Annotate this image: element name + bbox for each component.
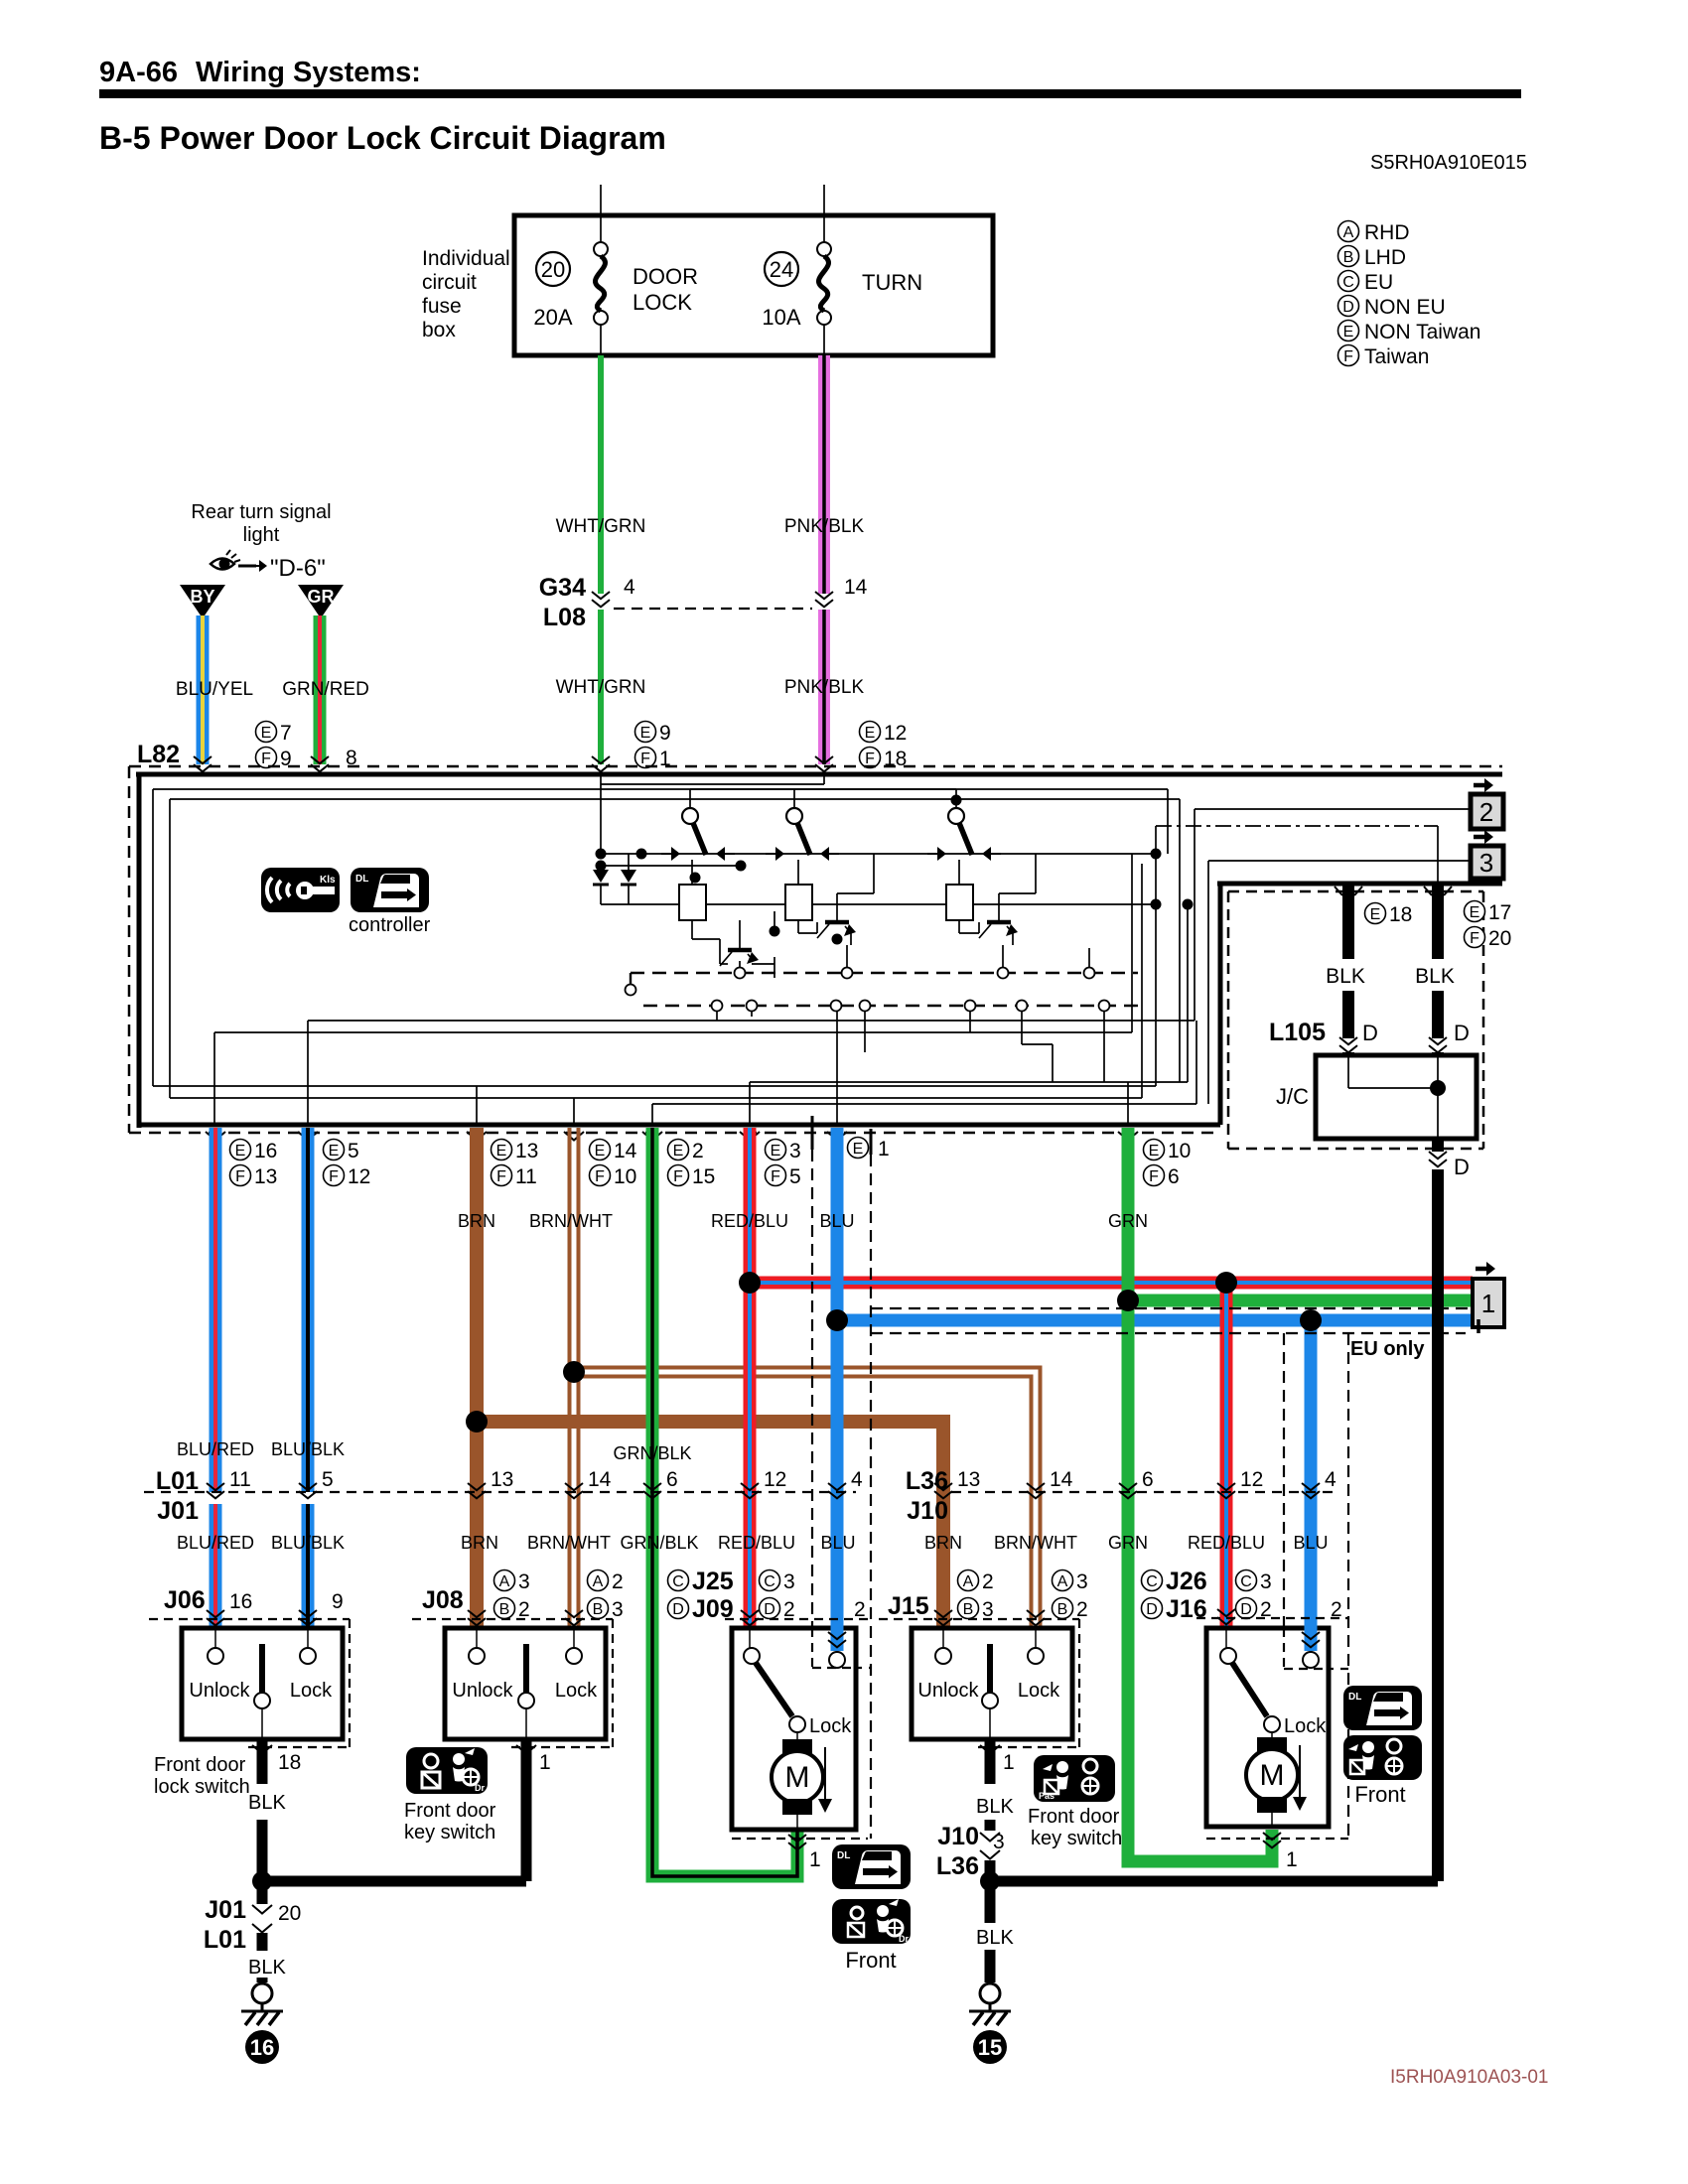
svg-text:DL: DL	[837, 1850, 850, 1861]
svg-text:L36: L36	[906, 1467, 948, 1495]
svg-text:15: 15	[978, 2035, 1002, 2060]
connector L105 chevron right	[1429, 1037, 1447, 1052]
svg-text:NON EU: NON EU	[1364, 296, 1446, 319]
wire BLU/RED from L01 to J06	[210, 1504, 222, 1628]
front door lock switch caption	[154, 1754, 250, 1798]
svg-text:TURN: TURN	[862, 270, 922, 295]
internal diode 2	[621, 854, 636, 904]
controller solid box bottom edge	[139, 1123, 1220, 1128]
controller pin E1	[848, 1138, 890, 1161]
internal relay coil 2	[785, 885, 812, 920]
svg-text:BLK: BLK	[976, 1796, 1014, 1818]
svg-text:RED/BLU: RED/BLU	[1188, 1533, 1265, 1553]
internal dashed bus upper terminals	[735, 968, 1095, 979]
controller pin E14 F10	[590, 1140, 637, 1189]
svg-text:DL: DL	[1348, 1692, 1361, 1703]
svg-text:18: 18	[1389, 903, 1412, 926]
key switch badge J08	[406, 1747, 488, 1794]
svg-text:BRN/WHT: BRN/WHT	[994, 1533, 1077, 1553]
svg-text:BLK: BLK	[1415, 965, 1455, 988]
internal diode 1	[593, 866, 609, 904]
svg-text:M: M	[1260, 1759, 1285, 1792]
svg-text:F: F	[595, 1168, 605, 1185]
svg-text:10: 10	[614, 1165, 636, 1188]
svg-text:GRN/RED: GRN/RED	[282, 679, 369, 700]
svg-text:B-5 Power Door Lock Circuit Di: B-5 Power Door Lock Circuit Diagram	[99, 120, 666, 156]
svg-text:A: A	[499, 1573, 510, 1590]
svg-text:6: 6	[1168, 1165, 1180, 1188]
connector L105 chevron left	[1339, 1037, 1357, 1052]
internal transistor Q3	[979, 908, 1018, 938]
internal junction dots on left bus	[596, 849, 647, 872]
controller pin E5 F12	[324, 1140, 371, 1189]
svg-text:Rear turn signal: Rear turn signal	[191, 501, 331, 523]
junction block J/C box	[1316, 1055, 1477, 1139]
svg-text:1: 1	[1481, 1289, 1495, 1318]
fuse 24 feed stub	[823, 185, 825, 215]
svg-text:key switch: key switch	[1031, 1828, 1122, 1849]
svg-text:light: light	[243, 524, 280, 546]
junction dot RED/BLU right branch	[1215, 1272, 1237, 1294]
svg-text:Individual: Individual	[422, 247, 510, 270]
junction block dashed box	[1228, 891, 1483, 1149]
svg-text:BLU: BLU	[820, 1533, 855, 1553]
controller solid box left edge	[137, 774, 142, 1128]
svg-text:11: 11	[229, 1468, 251, 1491]
wire BLK right lower segment	[1432, 991, 1444, 1038]
svg-text:5: 5	[348, 1140, 359, 1162]
controller right rail	[1217, 882, 1502, 887]
numbered box 3	[1471, 846, 1503, 879]
svg-text:B: B	[499, 1601, 510, 1618]
svg-text:LHD: LHD	[1364, 246, 1406, 269]
wire BLU/YEL from BY triangle to L82	[197, 615, 210, 764]
svg-text:BLU/BLK: BLU/BLK	[271, 1439, 345, 1459]
wire BLU from controller down to left actuator	[831, 1128, 844, 1650]
controller solid right edge lower	[1218, 884, 1223, 1125]
svg-text:Lock: Lock	[290, 1680, 333, 1702]
connector J08 pins A3 B2	[494, 1570, 530, 1622]
internal routing wires from bottom pins	[477, 789, 1196, 1123]
EU option corridor right solid stub	[870, 1129, 873, 1155]
chevron below J08	[516, 1745, 536, 1754]
wire PNK/BLK chevron at L08	[815, 592, 833, 607]
svg-text:Front: Front	[845, 1948, 896, 1973]
fuse box outline	[514, 215, 993, 355]
connector J06 chevrons	[207, 1610, 317, 1625]
front door key switch caption J08	[404, 1800, 496, 1843]
svg-text:F: F	[1343, 348, 1353, 365]
svg-text:C: C	[672, 1573, 684, 1590]
svg-text:J26: J26	[1166, 1568, 1207, 1595]
internal relay common rail	[601, 903, 1156, 905]
wire GRN bottom elbow to right actuator pin 1	[1128, 1588, 1272, 1861]
svg-text:4: 4	[851, 1468, 863, 1491]
svg-text:F: F	[771, 1168, 780, 1185]
internal switch 3	[948, 794, 972, 855]
header rule bar	[99, 89, 1521, 98]
svg-text:"D-6": "D-6"	[270, 555, 326, 582]
svg-text:J10: J10	[907, 1497, 948, 1525]
wire GRN/RED from GR triangle to L82	[314, 615, 327, 764]
svg-text:E: E	[771, 1143, 781, 1160]
svg-text:DL: DL	[355, 874, 368, 885]
label row below L01	[177, 1533, 856, 1553]
EU option dashed notch right actuator	[1284, 1668, 1348, 1670]
svg-text:Lock: Lock	[555, 1680, 598, 1702]
svg-text:D: D	[1342, 299, 1354, 316]
chevron below J15	[980, 1745, 1000, 1754]
wire WHT/GRN chevron at G34	[592, 592, 610, 607]
reference arrow to D-6	[238, 560, 267, 572]
svg-text:14: 14	[844, 576, 868, 599]
pin E18 label	[1365, 903, 1413, 927]
svg-text:PNK/BLK: PNK/BLK	[784, 677, 865, 698]
driver badge middle	[832, 1899, 911, 1944]
internal bus wire upper	[601, 853, 1156, 855]
svg-text:EU: EU	[1364, 271, 1393, 294]
svg-text:13: 13	[515, 1140, 538, 1162]
numbered box 1	[1473, 1279, 1504, 1327]
chevron below J06	[252, 1745, 272, 1754]
svg-text:2: 2	[612, 1570, 624, 1593]
wire BLK right from rail to J/C	[1432, 884, 1444, 959]
svg-text:3: 3	[789, 1140, 801, 1162]
svg-text:BY: BY	[190, 587, 214, 607]
controller solid box top edge	[136, 772, 1502, 777]
svg-text:RHD: RHD	[1364, 221, 1410, 244]
svg-text:E: E	[1470, 904, 1480, 921]
wire BLK from L36 to ground 15	[985, 1860, 996, 1923]
fuse box label Individual circuit fuse box	[422, 247, 510, 341]
wire BLK from J/C down	[1432, 1139, 1444, 1152]
L82 chevron PNK/BLK	[815, 756, 833, 771]
svg-text:key switch: key switch	[404, 1822, 495, 1843]
left door lock actuator box	[732, 1628, 856, 1830]
fuse number 24 circle	[765, 252, 798, 286]
svg-text:20A: 20A	[533, 305, 572, 330]
svg-text:BLU/YEL: BLU/YEL	[176, 679, 253, 700]
fuse 20 name DOOR LOCK	[633, 264, 698, 315]
svg-text:GRN: GRN	[1108, 1211, 1148, 1231]
internal dashed bus lower terminals	[712, 1001, 1110, 1012]
legend item F Taiwan	[1338, 345, 1359, 366]
svg-text:J01: J01	[205, 1896, 246, 1924]
left actuator motor	[772, 1739, 823, 1830]
junction dot BLK right	[980, 1871, 1000, 1891]
internal dashed bus lower	[643, 1005, 1142, 1007]
internal switch 2 arrows	[766, 847, 839, 861]
svg-text:3: 3	[518, 1570, 530, 1593]
junction dot BRN branch	[466, 1411, 488, 1433]
svg-text:L82: L82	[137, 741, 180, 768]
connector J15 chevrons	[934, 1610, 1045, 1625]
svg-text:Unlock: Unlock	[917, 1680, 979, 1702]
svg-text:Unlock: Unlock	[189, 1680, 250, 1702]
numbered box 2	[1471, 794, 1503, 829]
svg-text:A: A	[963, 1573, 974, 1590]
legend item E NON Taiwan	[1338, 321, 1359, 341]
note rear turn signal light	[191, 501, 331, 546]
svg-text:18: 18	[278, 1751, 301, 1774]
front door key switch J08 contacts	[469, 1628, 582, 1739]
front door lock switch box	[182, 1628, 343, 1739]
svg-text:F: F	[235, 1168, 245, 1185]
svg-text:C: C	[1342, 274, 1354, 291]
front door key switch box J08	[445, 1628, 606, 1739]
EU option dashed vertical left corridor B	[870, 1155, 872, 1839]
wire BLU/RED from controller to L01	[210, 1128, 222, 1492]
svg-text:Front door: Front door	[1028, 1806, 1120, 1828]
connector L01 dashed line	[144, 1491, 856, 1493]
svg-text:Lock: Lock	[1284, 1715, 1327, 1737]
EU option dashed notch left actuator	[812, 1667, 871, 1669]
EU option dashed notch inside left actuator	[812, 1628, 856, 1668]
chevron BLU at left actuator	[828, 1632, 846, 1647]
wire BLK elbow to J06 wire	[262, 1876, 526, 1887]
svg-text:2: 2	[854, 1598, 866, 1621]
svg-text:J10: J10	[937, 1823, 979, 1850]
svg-text:14: 14	[1050, 1468, 1073, 1491]
svg-text:13: 13	[491, 1468, 513, 1491]
triangle connector BY	[180, 585, 225, 618]
controller dashed border bottom	[129, 1132, 1220, 1135]
wire PNK/BLK from fuse 24 to L08	[818, 355, 830, 594]
internal junction dots mid	[690, 849, 1194, 945]
connector J26 dashed boundary	[1196, 1618, 1348, 1839]
svg-text:J01: J01	[157, 1497, 199, 1525]
svg-text:17: 17	[1488, 901, 1511, 924]
svg-text:LOCK: LOCK	[633, 290, 692, 315]
wire BLU horizontal to box 1	[837, 1314, 1473, 1327]
svg-text:GRN: GRN	[1108, 1533, 1148, 1553]
svg-text:Front: Front	[1354, 1782, 1405, 1807]
svg-text:Unlock: Unlock	[452, 1680, 513, 1702]
connector J26 pins C3 D2	[1236, 1570, 1272, 1622]
arrow above box 2	[1474, 778, 1493, 792]
svg-text:12: 12	[348, 1165, 370, 1188]
svg-text:BLK: BLK	[976, 1927, 1014, 1949]
svg-text:E: E	[673, 1143, 684, 1160]
svg-text:2: 2	[1076, 1598, 1088, 1621]
right actuator direction arrow	[1293, 1745, 1307, 1811]
svg-text:L36: L36	[936, 1852, 979, 1880]
svg-text:BLU/BLK: BLU/BLK	[271, 1533, 345, 1553]
svg-text:3: 3	[982, 1598, 994, 1621]
wire WHT/GRN from G34 to L82	[598, 610, 604, 764]
svg-text:GRN/BLK: GRN/BLK	[620, 1533, 698, 1553]
svg-text:J15: J15	[888, 1592, 929, 1620]
svg-text:1: 1	[1286, 1848, 1298, 1871]
svg-text:F: F	[865, 751, 875, 767]
svg-text:F: F	[1470, 930, 1479, 947]
internal relay coil 1	[679, 885, 706, 920]
internal stub wires from dashed buses	[717, 945, 1104, 1082]
left actuator green chevron pin 1	[788, 1835, 806, 1849]
svg-text:E: E	[1370, 906, 1381, 923]
internal routing wire to box 3	[214, 854, 1471, 1123]
svg-text:BLK: BLK	[1326, 965, 1365, 988]
right actuator green chevron pin 1	[1263, 1833, 1281, 1847]
svg-text:2: 2	[518, 1598, 530, 1621]
svg-text:BRN: BRN	[461, 1533, 498, 1553]
svg-text:Front door: Front door	[154, 1754, 246, 1776]
ground symbol right	[969, 1983, 1011, 2025]
right actuator switch contacts	[1220, 1628, 1319, 1741]
svg-text:1: 1	[1003, 1751, 1015, 1774]
eye symbol	[211, 550, 240, 570]
junction block internal dot	[1430, 1080, 1446, 1096]
svg-text:6: 6	[666, 1468, 678, 1491]
internal relay coil 3	[946, 885, 973, 920]
wire BLU right branch down	[1305, 1320, 1318, 1650]
svg-text:9: 9	[659, 722, 671, 745]
internal switch 3 feed from top rail	[955, 789, 957, 794]
controller door lock icon badge	[351, 868, 429, 912]
connector J15 dashed boundary	[879, 1619, 1079, 1747]
passenger badge right	[1343, 1735, 1422, 1780]
chevron D below J/C	[1429, 1152, 1447, 1166]
wire PNK/BLK from L08 to L82	[818, 610, 830, 764]
svg-text:11: 11	[515, 1165, 537, 1188]
EU option dashed line lower	[871, 1332, 1466, 1334]
svg-text:D: D	[672, 1601, 684, 1618]
svg-text:F: F	[261, 751, 271, 767]
svg-text:E: E	[595, 1143, 606, 1160]
svg-text:NON Taiwan: NON Taiwan	[1364, 321, 1481, 343]
wire BLK from J15 down	[985, 1739, 996, 1784]
connector J10 L36 labels bottom	[936, 1823, 979, 1880]
svg-text:Pas: Pas	[1039, 1791, 1055, 1801]
svg-text:Taiwan: Taiwan	[1364, 345, 1429, 368]
svg-text:15: 15	[692, 1165, 715, 1188]
connector J25 J09 labels	[668, 1568, 734, 1623]
svg-text:2: 2	[783, 1598, 795, 1621]
arrow above box 1	[1476, 1262, 1495, 1276]
internal wires switch to relay	[692, 860, 959, 885]
svg-text:4: 4	[1325, 1468, 1336, 1491]
connector L82 pin E12 F18	[860, 722, 908, 771]
wire RED/BLU horizontal to box 1	[750, 1277, 1473, 1290]
ground symbol left	[241, 1983, 283, 2025]
internal switch 1 arrows	[661, 847, 735, 861]
tick at box 1 blue pin	[1477, 1319, 1480, 1333]
connector J10 dashed line	[951, 1491, 1336, 1493]
svg-text:C: C	[764, 1573, 775, 1590]
wire GRN/BLK from controller down to left actuator pin 1	[652, 1128, 797, 1876]
svg-text:D: D	[1146, 1601, 1158, 1618]
svg-text:J25: J25	[692, 1568, 734, 1595]
svg-text:J08: J08	[422, 1586, 464, 1614]
svg-text:I5RH0A910A03-01: I5RH0A910A03-01	[1390, 2067, 1549, 2088]
pin E17 F20 label	[1465, 901, 1512, 951]
svg-text:1: 1	[539, 1751, 551, 1774]
fuse element 20 DOOR LOCK	[594, 215, 608, 355]
controller dashed border top	[129, 765, 1502, 768]
svg-text:B: B	[593, 1601, 604, 1618]
svg-text:WHT/GRN: WHT/GRN	[556, 516, 646, 537]
connector J15 pins A3 B2	[1053, 1570, 1088, 1622]
svg-text:BLU/RED: BLU/RED	[177, 1533, 254, 1553]
wire BLK left from rail to J/C	[1342, 884, 1354, 959]
connector G34 L08 labels	[539, 574, 586, 631]
svg-text:E: E	[1149, 1143, 1160, 1160]
connector J25 chevrons	[741, 1610, 759, 1625]
svg-text:BLU: BLU	[819, 1211, 854, 1231]
ground number 16	[245, 2030, 279, 2064]
svg-text:12: 12	[764, 1468, 786, 1491]
svg-text:L01: L01	[204, 1926, 246, 1954]
internal switch 3 arrows	[927, 847, 1001, 861]
svg-text:BLK: BLK	[248, 1957, 286, 1979]
svg-text:E: E	[235, 1143, 246, 1160]
connector J25 pins C3 D2	[760, 1570, 795, 1622]
junction dot BLU right branch	[1300, 1309, 1322, 1331]
svg-text:D: D	[1454, 1155, 1470, 1179]
connector J26 J16 labels	[1142, 1568, 1207, 1623]
wire BLK from J06 down	[257, 1739, 268, 1784]
svg-text:3: 3	[1260, 1570, 1272, 1593]
svg-text:E: E	[261, 725, 272, 742]
svg-text:fuse: fuse	[422, 295, 462, 318]
svg-text:E: E	[496, 1143, 507, 1160]
svg-text:16: 16	[250, 2035, 274, 2060]
svg-text:20: 20	[541, 257, 565, 282]
junction dot BLU branch	[826, 1309, 848, 1331]
svg-text:controller: controller	[349, 914, 431, 936]
svg-text:13: 13	[957, 1468, 980, 1491]
wire BRN/WHT branch elbow to J15	[574, 1368, 1041, 1629]
svg-text:12: 12	[884, 722, 907, 745]
svg-text:Wiring Systems:: Wiring Systems:	[196, 57, 421, 88]
right actuator motor	[1246, 1737, 1298, 1827]
svg-text:2: 2	[982, 1570, 994, 1593]
door lock badge right	[1343, 1686, 1422, 1730]
svg-text:9A-66: 9A-66	[99, 57, 178, 88]
svg-text:24: 24	[770, 257, 793, 282]
svg-text:B: B	[1343, 249, 1354, 266]
svg-text:L105: L105	[1269, 1019, 1326, 1046]
svg-text:7: 7	[280, 722, 292, 745]
label row below controller	[458, 1211, 1148, 1231]
front door key switch J15 contacts	[935, 1628, 1044, 1739]
triangle connector GR	[298, 585, 344, 618]
front door key switch J08 texts	[452, 1680, 598, 1702]
controller pin E16 F13	[230, 1140, 278, 1189]
svg-text:J06: J06	[164, 1586, 206, 1614]
L82 chevron BLU/YEL	[194, 756, 211, 771]
internal switch feed line top	[690, 788, 956, 790]
svg-text:EU only: EU only	[1350, 1338, 1425, 1360]
svg-text:16: 16	[254, 1140, 277, 1162]
legend item C EU	[1338, 271, 1359, 292]
wire RED/BLU right branch down	[1220, 1283, 1233, 1628]
svg-text:L01: L01	[156, 1467, 199, 1495]
svg-text:D: D	[1362, 1021, 1378, 1045]
key switch badge J15	[1034, 1755, 1115, 1802]
connector J01 chevron break	[252, 1905, 272, 1933]
svg-text:10: 10	[1168, 1140, 1191, 1162]
svg-text:D: D	[1240, 1601, 1252, 1618]
svg-text:Front door: Front door	[404, 1800, 496, 1822]
chevron BLK left at dashed box	[1335, 887, 1362, 895]
svg-text:1: 1	[809, 1848, 821, 1871]
connector J15 pins A2 B3	[958, 1570, 994, 1622]
svg-text:Dr: Dr	[899, 1934, 909, 1944]
internal mesh wires around transistors	[692, 854, 1036, 978]
svg-text:C: C	[1240, 1573, 1252, 1590]
left actuator direction arrow	[818, 1747, 832, 1813]
